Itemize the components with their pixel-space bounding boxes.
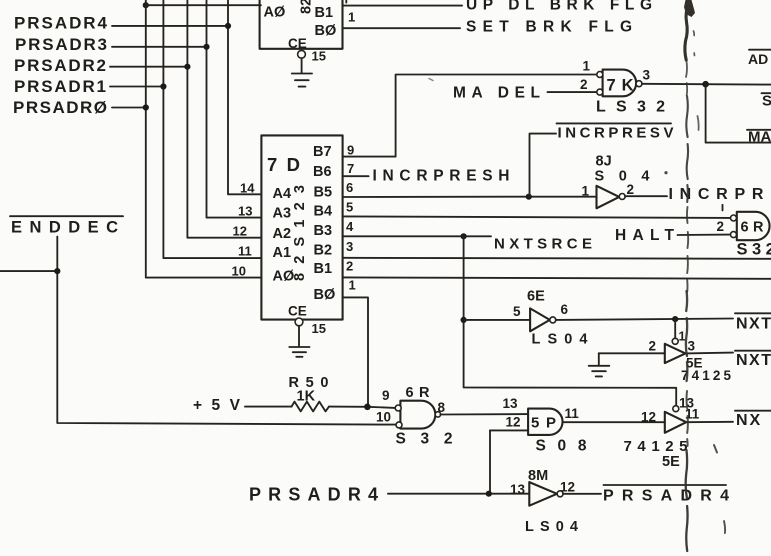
- node PRSADR3 junction: [203, 44, 209, 50]
- svg-text:15: 15: [312, 49, 326, 64]
- svg-text:12: 12: [506, 415, 521, 430]
- ground (top chip CE): [292, 74, 312, 87]
- stray dash near MA DEL: [429, 79, 433, 81]
- label NXT right edge 1 overline: [735, 312, 771, 314]
- inverter 8M body: [529, 482, 557, 506]
- svg-text:7: 7: [347, 161, 354, 176]
- wire left-edge stub to ENDDEC: [0, 270, 57, 272]
- svg-text:82: 82: [299, 0, 315, 14]
- svg-text:B2: B2: [314, 243, 333, 259]
- label ENDDEC overline: [10, 215, 123, 217]
- wire bus PRSADR2 vertical: [187, 0, 261, 238]
- wire PRSADR0 stub: [112, 107, 146, 109]
- inverter 6E body: [530, 308, 550, 331]
- svg-text:6R: 6R: [741, 220, 765, 236]
- wire PRSADR3 stub: [112, 46, 207, 48]
- svg-text:A1: A1: [273, 245, 292, 261]
- wire +5V to resistor: [245, 406, 292, 408]
- PROM U2 7D 82S123: [261, 135, 342, 319]
- svg-text:PRSADR4: PRSADR4: [249, 485, 378, 505]
- wire CE to ground (7D): [298, 326, 300, 346]
- buffer 74125-1 body: [665, 344, 686, 363]
- wire 5P input12 vertical to PRSADR4: [489, 430, 491, 493]
- and-gate 5P S08 body: [528, 409, 562, 435]
- wire PRSADR4 stub: [112, 25, 228, 27]
- svg-text:CE: CE: [288, 36, 307, 51]
- svg-text:2: 2: [346, 259, 353, 274]
- wire bus PRSADR3 vertical: [207, 0, 262, 218]
- svg-text:6: 6: [561, 302, 569, 317]
- svg-text:5: 5: [346, 200, 353, 215]
- node PRSADR4/5P junction: [486, 491, 492, 497]
- svg-text:NX: NX: [736, 412, 762, 429]
- pin bubble 6R input10: [396, 422, 402, 428]
- wire B6 pin7 stub INCRPRESH: [343, 175, 369, 177]
- svg-text:14: 14: [240, 181, 255, 196]
- node 6E input junction: [461, 317, 467, 323]
- fold speck right y117: [698, 116, 699, 130]
- svg-text:B6: B6: [313, 164, 332, 180]
- svg-text:8M: 8M: [528, 468, 548, 484]
- node PRSADR0 top junction: [143, 2, 149, 8]
- svg-text:15: 15: [312, 321, 326, 336]
- wire 8J output: [625, 195, 667, 197]
- svg-text:2: 2: [580, 77, 588, 92]
- wire 6E input: [464, 319, 530, 321]
- inverter 8J body: [597, 186, 620, 209]
- node +5V/B0 junction: [364, 404, 371, 411]
- label AD (cut) overline: [749, 49, 771, 51]
- svg-text:CE: CE: [288, 303, 307, 318]
- svg-text:INCRPRESV: INCRPRESV: [669, 186, 771, 203]
- svg-text:6: 6: [346, 180, 353, 195]
- svg-text:PRSADR4: PRSADR4: [603, 488, 729, 505]
- wire B2 pin3 to right edge: [343, 258, 771, 259]
- svg-text:2: 2: [627, 182, 635, 197]
- svg-text:11: 11: [565, 406, 580, 421]
- svg-text:A4: A4: [273, 186, 292, 202]
- svg-text:B1: B1: [314, 261, 333, 277]
- svg-text:AD: AD: [748, 51, 768, 67]
- buffer 74125-2 body: [665, 412, 686, 433]
- fold speck y522: [724, 521, 725, 533]
- svg-text:B4: B4: [314, 204, 333, 220]
- pin bubble 6R output: [435, 412, 440, 417]
- pin bubble 6R input1: [731, 215, 737, 221]
- node 74125-1 enable junction: [672, 316, 678, 322]
- wire 5P input12: [490, 429, 528, 431]
- label NXT right edge 2 overline: [735, 350, 771, 352]
- pin bubble 7K output: [636, 81, 642, 87]
- svg-text:1: 1: [583, 59, 591, 74]
- label NX right edge 3 overline: [735, 410, 771, 412]
- wire B3 pin4 NXTSRCE: [343, 235, 491, 237]
- svg-text:2: 2: [717, 219, 725, 234]
- svg-text:1: 1: [348, 10, 355, 25]
- svg-text:S: S: [762, 93, 771, 110]
- svg-text:8J: 8J: [596, 154, 612, 170]
- node PRSADR2 junction: [184, 64, 190, 70]
- fold line top blotch: [684, 0, 695, 17]
- svg-text:8: 8: [438, 400, 446, 415]
- svg-text:3: 3: [346, 239, 353, 254]
- svg-text:5E: 5E: [662, 454, 680, 470]
- svg-text:A2: A2: [273, 226, 292, 242]
- PROM U-top (top chip, partially cut): [260, 0, 343, 49]
- svg-text:SET BRK FLG: SET BRK FLG: [466, 19, 632, 36]
- svg-text:B7: B7: [313, 144, 332, 160]
- svg-text:INCRPRESH: INCRPRESH: [373, 168, 510, 185]
- ground (74125-1 input): [589, 366, 610, 377]
- or-gate 6R S32 (bottom) body: [400, 401, 435, 429]
- svg-text:3: 3: [688, 339, 696, 354]
- svg-text:13: 13: [510, 482, 526, 497]
- svg-text:S32: S32: [737, 241, 771, 259]
- pin bubble 7K input1: [597, 72, 603, 78]
- svg-text:12: 12: [560, 480, 575, 495]
- wire MADEL branch down to right edge: [706, 84, 771, 142]
- svg-text:3: 3: [643, 68, 651, 83]
- wire B0 pin1 down to 6R gate: [343, 297, 368, 406]
- wire 6R output to 5P input13: [440, 413, 528, 415]
- svg-text:9: 9: [382, 388, 390, 403]
- svg-text:AØ: AØ: [264, 5, 286, 21]
- pin bubble 6R input2: [731, 232, 737, 238]
- svg-text:6E: 6E: [527, 289, 545, 305]
- svg-text:+5V: +5V: [193, 397, 241, 414]
- svg-text:S32: S32: [396, 431, 453, 448]
- svg-text:INCRPRESV: INCRPRESV: [558, 125, 674, 142]
- wire 5P output to 74125-2 input: [563, 421, 665, 423]
- pin bubble 6E output: [550, 317, 556, 323]
- svg-text:1: 1: [582, 184, 590, 199]
- fold speck y445: [714, 445, 717, 453]
- svg-text:1: 1: [349, 278, 356, 293]
- svg-text:B1: B1: [315, 5, 334, 21]
- svg-text:NXT: NXT: [736, 352, 771, 369]
- svg-text:BØ: BØ: [315, 23, 337, 39]
- pin bubble 74125-2 enable: [673, 406, 679, 412]
- wire B5 pin6 to 8J input: [343, 196, 596, 198]
- node PRSADR0 label junction: [143, 104, 149, 110]
- svg-text:PRSADRØ: PRSADRØ: [13, 98, 107, 117]
- svg-text:5: 5: [513, 304, 521, 319]
- pin bubble 6R input9: [395, 405, 401, 411]
- fold line segment y392-445: [687, 391, 688, 446]
- wire 74125-2 output: [686, 421, 733, 423]
- wire B1 output (top chip): [343, 5, 463, 7]
- wire PRSADR2 stub: [110, 66, 187, 68]
- wire PRSADR4 to 8M input: [388, 493, 529, 495]
- fold line segment y208-290: [687, 207, 688, 292]
- fold line lower segment: [686, 450, 688, 551]
- svg-text:PRSADR1: PRSADR1: [14, 77, 106, 96]
- wire B4 pin5 to 6R input1: [343, 216, 731, 218]
- wire 7K output to right edge: [642, 83, 771, 86]
- wire bus PRSADR0 vertical: [146, 0, 261, 278]
- svg-text:PRSADR3: PRSADR3: [15, 35, 107, 54]
- node PRSADR1 junction: [160, 83, 166, 89]
- svg-text:PRSADR2: PRSADR2: [14, 56, 106, 75]
- fold line segment y97-205: [686, 96, 688, 202]
- wire B0 output (top chip): [343, 27, 461, 29]
- ground (7D CE): [289, 347, 309, 357]
- svg-text:1K: 1K: [297, 389, 316, 405]
- wire bus PRSADR1 vertical: [163, 0, 261, 258]
- wire top-chip A0 input: [146, 4, 261, 6]
- label PRSADR4-bar overline: [604, 484, 727, 486]
- wire bus PRSADR4 vertical: [228, 0, 261, 194]
- wire ENDDEC vertical: [57, 237, 396, 425]
- wire MA DEL to 7K input2: [548, 91, 598, 93]
- svg-text:12: 12: [233, 224, 247, 239]
- svg-text:12: 12: [641, 410, 656, 425]
- svg-text:A3: A3: [273, 206, 292, 222]
- node ENDDEC junction: [54, 268, 60, 274]
- pin bubble 8J output: [619, 194, 625, 200]
- wire enable drop to 74125-1: [674, 319, 676, 338]
- wire 74125-1 input: [599, 352, 665, 354]
- wire HALT to 6R input2: [678, 234, 731, 236]
- pin bubble CE (7D): [295, 318, 303, 326]
- svg-text:AØ: AØ: [273, 269, 295, 285]
- svg-text:13: 13: [503, 396, 519, 411]
- svg-text:1: 1: [679, 330, 686, 344]
- or-gate 6R S32 (top) body: [737, 212, 770, 240]
- wire 8M output: [563, 493, 601, 495]
- op gate 7K LS32 body: [603, 70, 637, 97]
- node PRSADR4 junction: [225, 23, 231, 29]
- wire ground stub to 74125-1 input: [598, 353, 600, 365]
- wire resistor to 6R input9: [329, 407, 395, 408]
- svg-text:10: 10: [376, 410, 391, 425]
- wire 74125-1 output: [685, 352, 733, 355]
- node NXTSRCE junction: [461, 233, 467, 239]
- pin bubble CE (top chip): [298, 50, 306, 58]
- label S (cut) overline: [762, 92, 771, 94]
- fold line segment y292-390: [686, 291, 687, 381]
- svg-text:2: 2: [649, 339, 657, 354]
- fold line upper segment: [685, 4, 689, 60]
- wire INCRPRESV connector: [530, 134, 557, 197]
- resistor R50 1K: [292, 402, 330, 412]
- svg-text:13: 13: [238, 204, 252, 219]
- svg-text:B5: B5: [314, 185, 333, 201]
- pin bubble 7K input2: [597, 89, 603, 95]
- node 7K output junction: [702, 81, 709, 88]
- svg-text:4: 4: [346, 219, 354, 234]
- svg-text:11: 11: [238, 244, 252, 259]
- pin stub cut digit (top chip B1 pin number): [345, 0, 347, 3]
- svg-text:S04: S04: [595, 169, 650, 185]
- svg-text:PRSADR4: PRSADR4: [14, 14, 108, 33]
- svg-text:MA: MA: [748, 129, 771, 146]
- pin bubble 8M output: [557, 491, 563, 497]
- svg-text:9: 9: [347, 143, 354, 158]
- svg-text:B3: B3: [314, 223, 333, 239]
- wire B7 pin9 to 7K input1: [343, 75, 597, 157]
- svg-text:S08: S08: [536, 438, 587, 455]
- svg-text:NXTSRCE: NXTSRCE: [494, 236, 592, 253]
- svg-text:10: 10: [232, 264, 246, 279]
- wire CE to ground (top chip): [301, 58, 303, 73]
- svg-text:NXT: NXT: [736, 316, 771, 333]
- svg-text:BØ: BØ: [314, 287, 336, 303]
- label INCRPRESV overline: [557, 122, 672, 124]
- wire 6E output to right edge label: [556, 319, 733, 320]
- node INCRPRESV junction: [526, 194, 532, 200]
- label MA (cut) overline: [747, 129, 771, 131]
- pin bubble 74125-1 enable: [672, 338, 678, 344]
- wire NXTSRCE vertical to 6E and 74125 enable: [464, 236, 677, 405]
- wire PRSADR1 stub: [110, 86, 163, 88]
- fold line segment y60-95: [686, 61, 687, 95]
- stray speck near S04: [664, 171, 667, 174]
- wire B1 pin2 to right edge: [343, 277, 771, 278]
- pin number 1 (6R top): [722, 205, 724, 211]
